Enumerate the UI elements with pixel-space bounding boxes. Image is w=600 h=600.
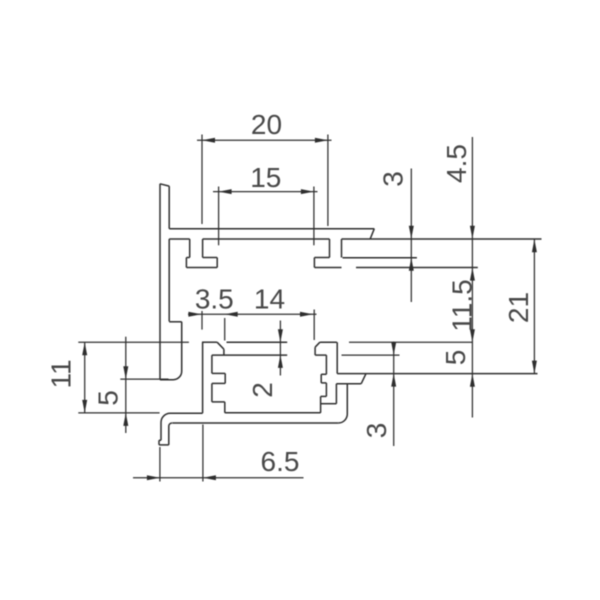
- profile channel right pocket top: [320, 341, 337, 343]
- dimension 6.5 label: [261, 446, 300, 477]
- profile right T-hook foot: [314, 258, 341, 268]
- profile left wall top chamfer: [160, 184, 169, 186]
- extension line foot top left: [78, 412, 159, 414]
- profile foot lip bottom: [159, 444, 169, 446]
- svg-text:21: 21: [503, 292, 534, 323]
- dimension 3.5-14 line and arrows: [188, 310, 317, 341]
- profile gasket line lower (4.5 ref): [356, 267, 478, 269]
- dimension 3.5 label: [195, 283, 234, 314]
- profile channel web top: [227, 341, 288, 343]
- dimension 5 left label: [93, 390, 124, 406]
- dimension 4.5 label: [441, 144, 472, 183]
- profile channel web bottom: [212, 354, 287, 356]
- profile channel outer bottom: [172, 422, 338, 424]
- profile right T-hook stem: [330, 239, 342, 258]
- extension line channel top left: [78, 341, 189, 343]
- profile channel left pocket chamfer: [217, 342, 224, 349]
- profile channel floor inner: [225, 412, 321, 414]
- profile channel right pocket chamfer: [315, 342, 320, 347]
- svg-text:2: 2: [247, 382, 278, 398]
- profile left T-hook foot: [186, 258, 217, 268]
- profile foot top surface: [161, 413, 203, 440]
- extension line wall bottom left: [120, 378, 168, 380]
- dimension 15 line and arrows: [213, 187, 318, 246]
- profile foot lip step: [159, 440, 161, 445]
- profile top rail right chamfer: [370, 229, 374, 239]
- profile left wall inner edge below rail: [168, 239, 170, 321]
- dimension 21 label: [503, 292, 534, 323]
- dimension 5 right label: [440, 350, 471, 366]
- profile top rail bottom edge segments: [169, 238, 329, 240]
- dimension 5 left line and arrows: [123, 337, 128, 433]
- svg-text:3: 3: [377, 171, 408, 187]
- profile channel right wall outer face: [336, 342, 338, 373]
- dimension 3 lower label: [361, 423, 392, 439]
- dimension 2 line and arrows: [278, 321, 283, 376]
- profile left T-hook stem: [190, 239, 203, 258]
- profile channel outer-right wall: [338, 384, 347, 423]
- dimension 11 line and arrows: [82, 342, 87, 413]
- svg-text:3: 3: [361, 423, 392, 439]
- dimension 6.5 line and arrows: [133, 425, 304, 482]
- svg-text:5: 5: [440, 350, 471, 366]
- svg-text:3.5: 3.5: [195, 283, 234, 314]
- extension line web bottom right: [342, 354, 400, 356]
- profile left wall inner edge upper: [168, 186, 170, 229]
- svg-text:5: 5: [93, 390, 124, 406]
- svg-text:11: 11: [46, 359, 77, 388]
- dimension 3 upper label: [377, 171, 408, 187]
- dimension 3 lower line and arrows: [391, 342, 396, 447]
- profile left wall glazing hook: [160, 322, 182, 380]
- svg-text:11.5: 11.5: [446, 279, 477, 331]
- profile right wing tip chamfer: [361, 374, 366, 384]
- profile channel right pocket face: [314, 347, 316, 355]
- profile channel outer-left wall: [202, 342, 204, 413]
- profile gasket line upper (3 ref): [343, 257, 417, 259]
- profile channel left pocket top: [202, 341, 217, 343]
- svg-text:14: 14: [254, 283, 285, 314]
- dimension 2 label: [247, 382, 278, 398]
- profile channel right serrated wall: [321, 355, 327, 413]
- profile channel right inner ledge: [321, 384, 337, 404]
- dimension 4.5-11.5-5 shared line and arrows: [470, 137, 475, 418]
- svg-text:15: 15: [250, 162, 281, 193]
- svg-text:6.5: 6.5: [261, 446, 300, 477]
- dimension 20 line and arrows: [197, 135, 332, 227]
- dimension 3 upper line and arrows: [409, 169, 414, 303]
- profile left wall outer edge: [159, 184, 161, 380]
- dimension 21 line and arrows: [532, 239, 537, 373]
- dimension 15 label: [250, 162, 281, 193]
- profile foot lip inner edge: [169, 423, 172, 445]
- extension line channel top right: [349, 341, 473, 343]
- profile channel left serrated wall: [212, 355, 225, 413]
- dimension 14 label: [254, 283, 285, 314]
- svg-text:4.5: 4.5: [441, 144, 472, 183]
- dimension 11.5 label: [446, 279, 477, 331]
- dimension 20 label: [251, 109, 282, 140]
- profile top rail top edge: [169, 228, 374, 230]
- profile right wing underside: [336, 383, 361, 385]
- profile top blade edge (21 ref): [342, 238, 542, 240]
- profile channel left pocket face: [223, 349, 225, 355]
- dimension 11 label: [46, 359, 77, 388]
- svg-text:20: 20: [251, 109, 282, 140]
- profile right wing top edge (21/5 ref): [337, 373, 537, 375]
- profile channel right pocket bottom: [315, 354, 326, 356]
